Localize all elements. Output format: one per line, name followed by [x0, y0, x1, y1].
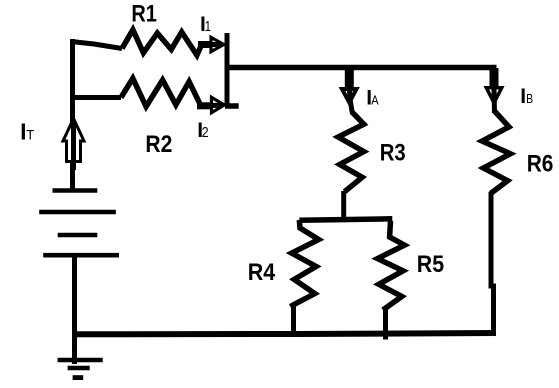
label I2	[197, 119, 208, 142]
resistor R6	[482, 111, 510, 194]
resistor R4	[290, 220, 318, 307]
wire R3 bottom lead	[341, 191, 346, 218]
wire bottom horizontal	[75, 333, 496, 334]
current arrow I1	[198, 37, 224, 51]
label IB	[520, 85, 533, 108]
wire R1 left lead	[71, 42, 122, 49]
svg-text:B: B	[526, 91, 533, 106]
current arrow IT	[63, 119, 84, 171]
svg-text:R2: R2	[145, 131, 172, 158]
svg-text:R6: R6	[527, 151, 554, 178]
battery B1 plate 1	[53, 188, 98, 193]
battery B1 plate 4	[43, 253, 119, 258]
svg-text:1: 1	[205, 18, 211, 35]
resistor R2	[121, 78, 200, 106]
svg-text:R1: R1	[131, 1, 157, 28]
label IA	[366, 86, 379, 109]
ground bar 2	[68, 366, 90, 371]
svg-text:2: 2	[202, 124, 209, 141]
svg-text:R3: R3	[380, 140, 406, 167]
svg-text:A: A	[371, 92, 379, 107]
battery B1 plate 3	[58, 233, 98, 237]
label IT	[20, 119, 35, 145]
battery B1 plate 2	[39, 210, 116, 215]
current arrow I2	[197, 97, 224, 112]
svg-text:R4: R4	[248, 259, 276, 286]
wire R4 R5 top bar	[299, 219, 392, 221]
wire R4 bottom lead	[291, 305, 296, 332]
wire main top	[227, 65, 497, 71]
current arrow IA	[342, 68, 357, 114]
resistor R1	[122, 30, 202, 56]
wire R5 bottom lead	[383, 308, 388, 340]
resistor R3	[338, 112, 364, 192]
current arrow IB	[486, 68, 501, 113]
svg-text:T: T	[26, 127, 34, 143]
ground bar 3	[73, 375, 84, 380]
wire R2 left lead	[70, 95, 121, 100]
ground bar 1	[58, 358, 103, 363]
svg-text:R5: R5	[417, 251, 444, 278]
wire battery to ground	[72, 255, 77, 364]
wire left vertical	[70, 39, 75, 190]
node right bus	[225, 33, 230, 106]
wire bus foot	[225, 103, 239, 109]
resistor R5	[378, 221, 405, 310]
label I1	[200, 13, 211, 36]
wire R6 bottom lead	[491, 192, 494, 334]
